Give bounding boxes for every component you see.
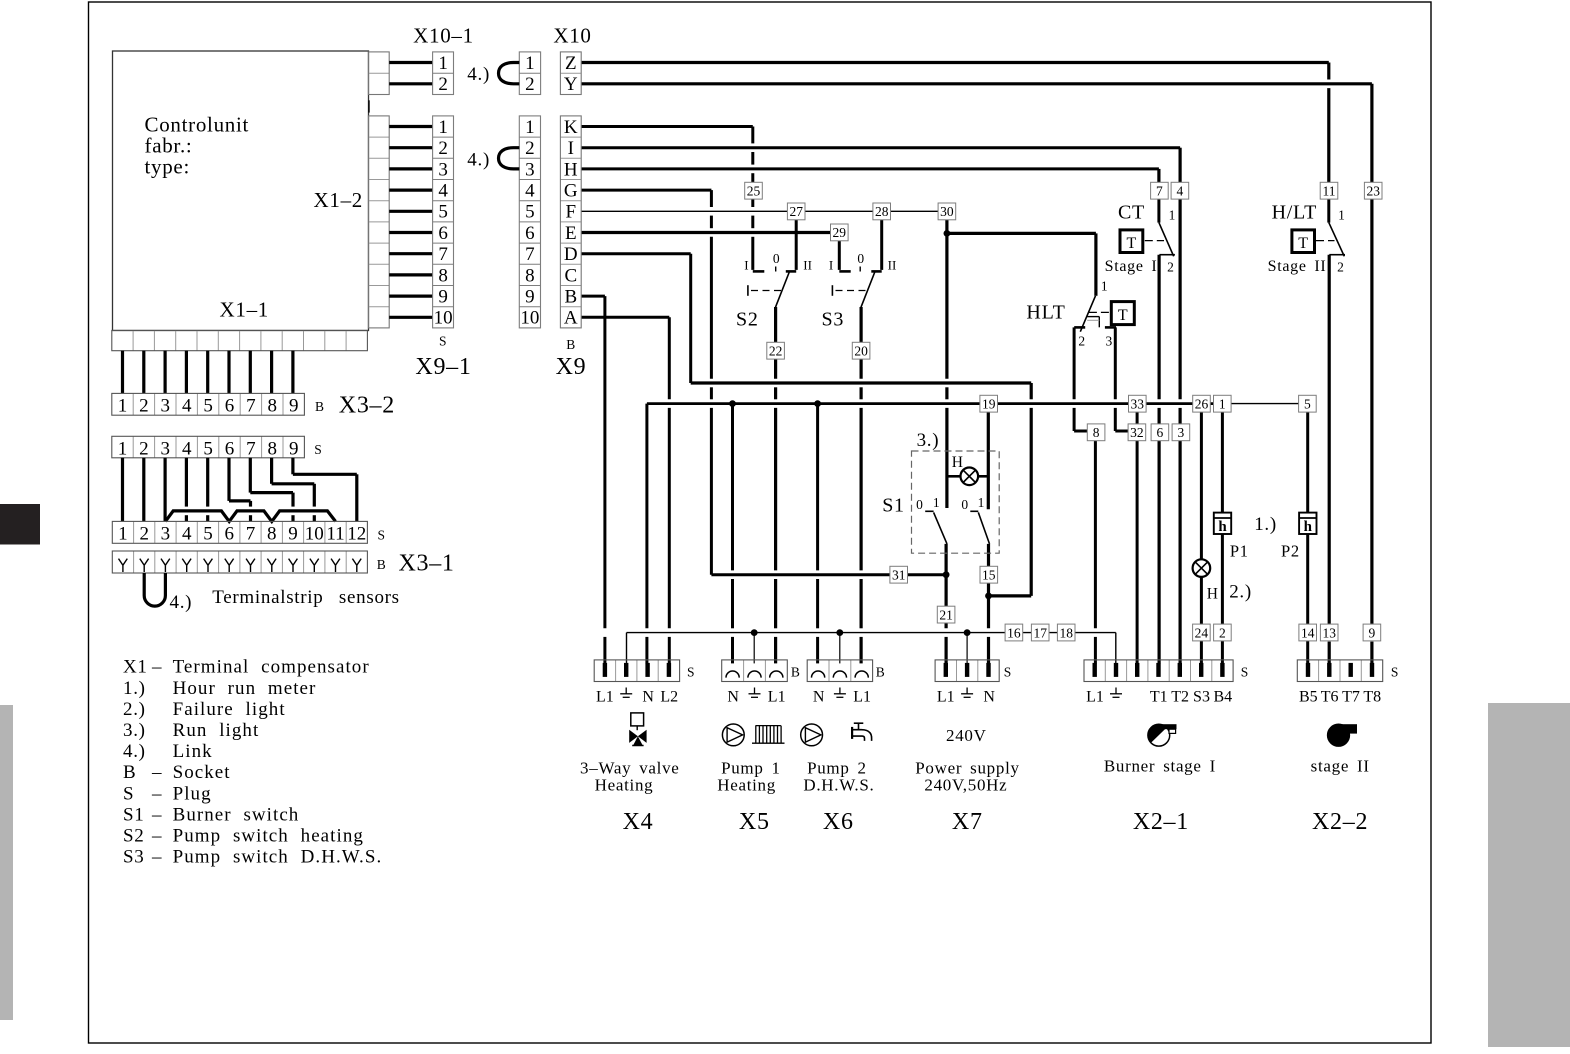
- svg-text:12: 12: [347, 524, 366, 545]
- svg-text:L2: L2: [660, 689, 678, 706]
- svg-text:20: 20: [854, 344, 868, 359]
- svg-text:7: 7: [525, 244, 535, 265]
- svg-text:E: E: [565, 223, 577, 244]
- svg-text:7: 7: [246, 524, 256, 545]
- svg-text:14: 14: [1301, 625, 1315, 640]
- svg-text:0: 0: [857, 251, 864, 266]
- svg-text:8: 8: [525, 265, 535, 286]
- svg-text:1: 1: [438, 117, 448, 138]
- svg-text:2: 2: [1167, 260, 1174, 275]
- svg-text:A: A: [564, 308, 578, 329]
- svg-text:L1: L1: [853, 689, 871, 706]
- svg-text:8: 8: [267, 524, 277, 545]
- svg-text:D: D: [564, 244, 578, 265]
- svg-text:1: 1: [438, 53, 448, 74]
- svg-text:1.): 1.): [1254, 514, 1277, 535]
- svg-text:3: 3: [1178, 425, 1185, 440]
- svg-text:Heating: Heating: [717, 776, 776, 795]
- svg-text:15: 15: [982, 568, 996, 583]
- svg-text:240V: 240V: [946, 726, 987, 745]
- svg-text:Y: Y: [564, 74, 578, 95]
- svg-text:5: 5: [203, 396, 213, 417]
- svg-text:2: 2: [139, 438, 149, 459]
- svg-text:2: 2: [1337, 260, 1344, 275]
- svg-text:I: I: [568, 138, 574, 159]
- svg-text:T7: T7: [1342, 689, 1360, 706]
- svg-text:Pump 1: Pump 1: [721, 758, 781, 777]
- svg-text:Stage I: Stage I: [1105, 258, 1158, 275]
- svg-text:B4: B4: [1213, 689, 1232, 706]
- svg-text:18: 18: [1059, 625, 1073, 640]
- svg-text:0: 0: [773, 251, 780, 266]
- svg-text:B: B: [315, 399, 324, 414]
- svg-text:X7: X7: [952, 809, 983, 835]
- svg-text:X5: X5: [739, 809, 770, 835]
- svg-text:N: N: [813, 689, 825, 706]
- svg-text:19: 19: [982, 397, 996, 412]
- svg-text:X1: X1: [123, 657, 148, 678]
- svg-text:1: 1: [525, 117, 535, 138]
- svg-text:S: S: [1241, 664, 1249, 679]
- svg-text:8: 8: [1093, 425, 1100, 440]
- svg-text:CT: CT: [1118, 202, 1145, 224]
- svg-text:0: 0: [961, 497, 968, 512]
- svg-text:Stage II: Stage II: [1268, 258, 1327, 275]
- svg-text:T2: T2: [1171, 689, 1189, 706]
- svg-text:S1: S1: [882, 495, 905, 517]
- svg-text:II: II: [888, 258, 897, 273]
- svg-text:21: 21: [939, 607, 953, 622]
- svg-text:1: 1: [118, 438, 128, 459]
- svg-text:B: B: [564, 287, 577, 308]
- svg-text:L1: L1: [768, 689, 786, 706]
- svg-text:B: B: [123, 762, 136, 783]
- svg-text:Heating: Heating: [595, 776, 654, 795]
- svg-text:2: 2: [525, 74, 535, 95]
- svg-text:X1–2: X1–2: [314, 188, 363, 212]
- svg-text:P1: P1: [1230, 542, 1249, 561]
- svg-text:4: 4: [182, 524, 192, 545]
- svg-text:3.): 3.): [917, 430, 940, 451]
- svg-text:X4: X4: [623, 809, 654, 835]
- svg-text:S: S: [1004, 664, 1012, 679]
- svg-text:X9: X9: [556, 354, 587, 380]
- svg-text:2: 2: [1219, 625, 1226, 640]
- svg-text:B: B: [876, 664, 885, 679]
- svg-text:Power supply: Power supply: [915, 758, 1019, 777]
- svg-text:P2: P2: [1281, 542, 1300, 561]
- svg-text:Burner switch: Burner switch: [173, 804, 300, 825]
- svg-text:–: –: [151, 783, 162, 804]
- svg-text:Terminalstrip sensors: Terminalstrip sensors: [212, 587, 399, 608]
- svg-text:T: T: [1298, 235, 1308, 252]
- svg-text:27: 27: [789, 204, 803, 219]
- svg-text:25: 25: [747, 184, 761, 199]
- svg-text:N: N: [983, 689, 995, 706]
- svg-text:5: 5: [525, 202, 535, 223]
- svg-text:–: –: [151, 826, 162, 847]
- svg-text:Hour run meter: Hour run meter: [173, 678, 317, 699]
- svg-text:1: 1: [118, 396, 128, 417]
- svg-text:31: 31: [892, 568, 906, 583]
- svg-text:8: 8: [268, 438, 278, 459]
- svg-text:T: T: [1127, 235, 1137, 252]
- svg-text:9: 9: [1369, 625, 1376, 640]
- svg-text:h: h: [1218, 519, 1227, 535]
- svg-text:7: 7: [438, 244, 448, 265]
- svg-text:1: 1: [1169, 207, 1176, 222]
- svg-text:S: S: [123, 783, 134, 804]
- svg-text:9: 9: [289, 396, 299, 417]
- svg-text:4: 4: [438, 181, 448, 202]
- svg-text:Pump 2: Pump 2: [807, 758, 867, 777]
- svg-text:C: C: [564, 265, 577, 286]
- svg-text:Terminal compensator: Terminal compensator: [173, 657, 370, 678]
- svg-text:28: 28: [875, 204, 889, 219]
- svg-text:S2: S2: [736, 308, 759, 330]
- svg-text:2.): 2.): [123, 699, 146, 720]
- svg-text:X3–2: X3–2: [339, 393, 395, 419]
- svg-text:H/LT: H/LT: [1272, 202, 1317, 224]
- svg-text:X3–1: X3–1: [399, 551, 455, 577]
- svg-text:2: 2: [438, 138, 448, 159]
- svg-text:10: 10: [305, 524, 324, 545]
- svg-text:1: 1: [525, 53, 535, 74]
- svg-text:13: 13: [1322, 625, 1336, 640]
- svg-text:3: 3: [161, 524, 171, 545]
- svg-text:X2–1: X2–1: [1133, 809, 1189, 835]
- svg-text:3: 3: [438, 159, 448, 180]
- svg-text:6: 6: [225, 438, 235, 459]
- svg-text:II: II: [803, 258, 812, 273]
- svg-text:L1: L1: [937, 689, 955, 706]
- svg-text:22: 22: [769, 344, 783, 359]
- svg-text:32: 32: [1130, 425, 1144, 440]
- svg-text:I: I: [829, 258, 833, 273]
- svg-text:B5: B5: [1299, 689, 1318, 706]
- svg-text:S: S: [687, 664, 695, 679]
- svg-text:3–Way valve: 3–Way valve: [580, 758, 680, 777]
- svg-text:17: 17: [1033, 625, 1047, 640]
- svg-text:2.): 2.): [1229, 582, 1252, 603]
- svg-text:8: 8: [438, 265, 448, 286]
- svg-text:1: 1: [1338, 207, 1345, 222]
- svg-text:2: 2: [525, 138, 535, 159]
- svg-text:5: 5: [438, 202, 448, 223]
- svg-text:B: B: [566, 337, 575, 352]
- svg-text:10: 10: [434, 308, 453, 329]
- svg-text:6: 6: [225, 396, 235, 417]
- svg-text:9: 9: [525, 287, 535, 308]
- svg-text:H: H: [1207, 586, 1218, 603]
- svg-text:X1–1: X1–1: [220, 298, 269, 322]
- svg-text:5: 5: [203, 438, 213, 459]
- svg-text:1: 1: [1101, 279, 1108, 294]
- svg-text:1: 1: [933, 495, 940, 510]
- svg-text:10: 10: [520, 308, 539, 329]
- svg-text:S: S: [314, 442, 322, 457]
- svg-text:4: 4: [1177, 184, 1184, 199]
- svg-text:X9–1: X9–1: [415, 354, 471, 380]
- svg-text:L1: L1: [596, 689, 614, 706]
- svg-text:4: 4: [182, 396, 192, 417]
- svg-text:Socket: Socket: [173, 762, 231, 783]
- svg-text:0: 0: [916, 497, 923, 512]
- svg-text:N: N: [642, 689, 654, 706]
- svg-text:Plug: Plug: [173, 783, 212, 804]
- svg-text:26: 26: [1195, 397, 1209, 412]
- svg-text:type:: type:: [145, 154, 191, 178]
- svg-text:5: 5: [1304, 397, 1311, 412]
- svg-text:9: 9: [288, 524, 298, 545]
- svg-text:11: 11: [326, 524, 344, 545]
- svg-text:4: 4: [182, 438, 192, 459]
- svg-text:–: –: [151, 762, 162, 783]
- svg-text:1: 1: [1219, 397, 1226, 412]
- svg-text:11: 11: [1323, 184, 1336, 199]
- svg-text:S3: S3: [123, 847, 144, 868]
- svg-text:4.): 4.): [123, 741, 146, 762]
- svg-text:G: G: [564, 181, 578, 202]
- svg-text:h: h: [1304, 519, 1313, 535]
- svg-text:2: 2: [438, 74, 448, 95]
- svg-text:S2: S2: [123, 826, 144, 847]
- svg-text:6: 6: [438, 223, 448, 244]
- svg-text:Pump switch D.H.W.S.: Pump switch D.H.W.S.: [173, 847, 383, 868]
- svg-text:3.): 3.): [123, 720, 146, 741]
- svg-text:5: 5: [203, 524, 213, 545]
- svg-text:1: 1: [118, 524, 128, 545]
- svg-text:9: 9: [438, 287, 448, 308]
- svg-text:X2–2: X2–2: [1312, 809, 1368, 835]
- svg-text:S: S: [378, 528, 386, 543]
- svg-text:4.): 4.): [467, 150, 490, 171]
- svg-text:6: 6: [224, 524, 234, 545]
- svg-text:Link: Link: [173, 741, 213, 762]
- svg-text:7: 7: [246, 438, 256, 459]
- svg-text:L1: L1: [1086, 689, 1104, 706]
- svg-text:S: S: [439, 333, 447, 348]
- svg-text:S1: S1: [123, 804, 144, 825]
- svg-text:4.): 4.): [467, 64, 490, 85]
- svg-text:24: 24: [1195, 625, 1209, 640]
- svg-text:2: 2: [139, 396, 149, 417]
- svg-text:240V,50Hz: 240V,50Hz: [924, 776, 1007, 795]
- svg-text:6: 6: [525, 223, 535, 244]
- svg-text:D.H.W.S.: D.H.W.S.: [803, 776, 874, 795]
- svg-text:X10–1: X10–1: [413, 24, 474, 48]
- svg-text:F: F: [566, 202, 577, 223]
- svg-text:–: –: [151, 657, 162, 678]
- svg-text:29: 29: [833, 225, 847, 240]
- svg-text:16: 16: [1007, 625, 1021, 640]
- svg-text:X6: X6: [823, 809, 854, 835]
- svg-text:Run light: Run light: [173, 720, 260, 741]
- svg-text:B: B: [791, 664, 800, 679]
- svg-text:H: H: [564, 159, 578, 180]
- svg-text:3: 3: [161, 396, 171, 417]
- svg-text:K: K: [564, 117, 578, 138]
- svg-text:23: 23: [1366, 184, 1380, 199]
- svg-text:Burner stage I: Burner stage I: [1104, 757, 1216, 776]
- svg-text:N: N: [727, 689, 739, 706]
- svg-text:T: T: [1118, 307, 1128, 324]
- svg-text:1.): 1.): [123, 678, 146, 699]
- svg-text:S3: S3: [822, 308, 845, 330]
- svg-text:–: –: [151, 847, 162, 868]
- svg-text:33: 33: [1131, 397, 1145, 412]
- svg-text:S: S: [1391, 664, 1399, 679]
- svg-text:HLT: HLT: [1026, 302, 1065, 324]
- svg-text:H: H: [952, 454, 963, 471]
- svg-text:3: 3: [525, 159, 535, 180]
- svg-text:30: 30: [940, 204, 954, 219]
- svg-text:6: 6: [1157, 425, 1164, 440]
- svg-text:3: 3: [161, 438, 171, 459]
- svg-text:T6: T6: [1321, 689, 1339, 706]
- svg-text:Pump switch heating: Pump switch heating: [173, 826, 364, 847]
- svg-text:Failure light: Failure light: [173, 699, 286, 720]
- svg-text:X10: X10: [553, 24, 591, 48]
- svg-text:T8: T8: [1363, 689, 1381, 706]
- svg-text:stage II: stage II: [1311, 757, 1370, 776]
- svg-text:–: –: [151, 804, 162, 825]
- svg-text:7: 7: [246, 396, 256, 417]
- svg-text:4.): 4.): [170, 592, 193, 613]
- svg-text:7: 7: [1156, 184, 1163, 199]
- svg-text:2: 2: [1078, 334, 1085, 349]
- svg-text:B: B: [377, 557, 386, 572]
- svg-text:1: 1: [978, 495, 985, 510]
- svg-text:3: 3: [1106, 334, 1113, 349]
- svg-text:9: 9: [289, 438, 299, 459]
- svg-text:S3: S3: [1193, 689, 1210, 706]
- svg-text:2: 2: [139, 524, 149, 545]
- svg-text:8: 8: [268, 396, 278, 417]
- svg-text:T1: T1: [1150, 689, 1168, 706]
- svg-text:I: I: [744, 258, 748, 273]
- svg-text:Z: Z: [565, 53, 577, 74]
- svg-text:4: 4: [525, 181, 535, 202]
